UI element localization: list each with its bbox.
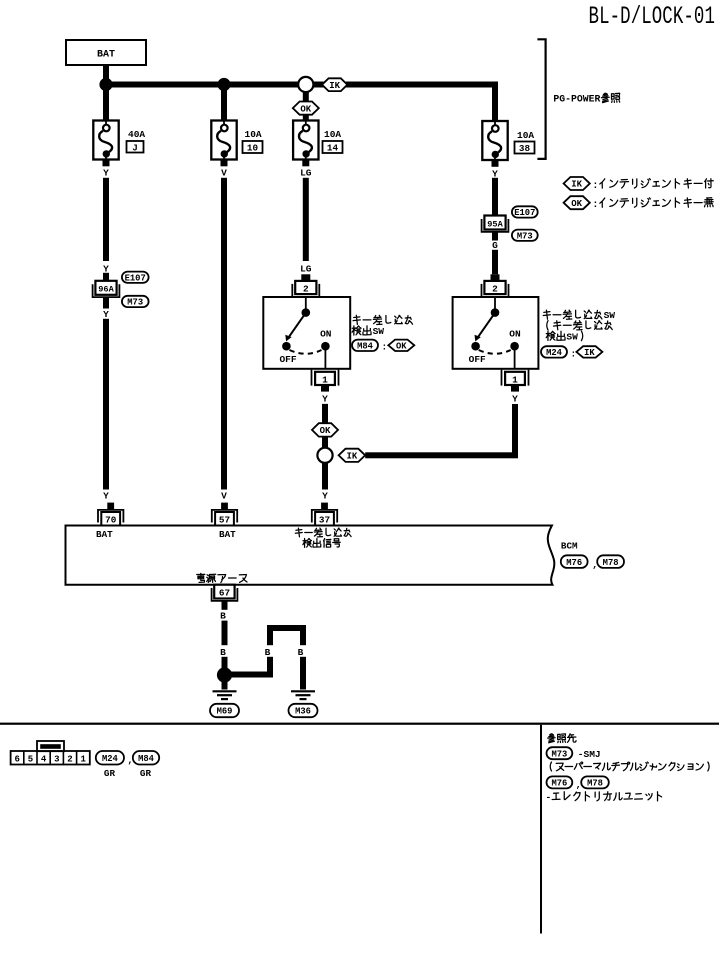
tag OK col3 [303,92,309,101]
wire col2 bus to fuse [221,85,227,121]
battery feed box BAT [66,40,146,65]
svg-text:OK: OK [396,342,407,352]
svg-text:Y: Y [492,168,498,179]
svg-text:5: 5 [28,755,33,765]
svg-text:PG-POWER: PG-POWER [553,93,600,104]
svg-text::: : [382,342,388,353]
tag M76 M78 [561,555,588,568]
tag M84 OK [352,340,378,351]
legend tag IK [564,177,590,190]
svg-text:Y: Y [322,394,328,405]
tag E107 col1 [122,272,149,283]
terminal 2 key switch right [491,274,500,281]
svg-text:M76: M76 [566,558,582,568]
svg-text:V: V [221,167,227,178]
svg-text:OFF: OFF [279,354,296,365]
svg-text:-: - [546,792,552,803]
fuse 10A 38 [482,121,507,160]
svg-text:1: 1 [322,375,328,386]
svg-text:14: 14 [327,143,339,154]
wire col3b down to OK tag [322,404,328,424]
node open circle mid [317,448,332,463]
svg-text:96A: 96A [98,285,114,295]
svg-text:E107: E107 [514,208,535,218]
svg-text:2: 2 [303,284,309,295]
svg-text:40A: 40A [128,129,145,140]
wire ground loop [225,672,274,678]
svg-text:OFF: OFF [469,354,486,365]
svg-text:IK: IK [329,81,340,91]
node junction dot col2 [217,78,230,91]
terminal 70 BCM [107,503,114,510]
wire col4 down to 95A [492,178,498,216]
reference legend [548,734,555,743]
svg-text:10A: 10A [324,129,341,140]
svg-text:95A: 95A [487,219,503,229]
tag IK mid [339,449,366,462]
terminal 2 key switch left [301,274,310,281]
svg-text::: : [592,200,598,211]
svg-text:M84: M84 [138,754,155,764]
tag E107 col4 [512,206,538,217]
svg-text:IK: IK [571,180,582,190]
tag OK mid [312,423,338,436]
svg-text:IK: IK [346,452,357,462]
svg-text:B: B [265,647,271,658]
wire power bus [103,82,299,88]
fuse 10A 14 [293,121,318,160]
svg-text:67: 67 [219,588,230,599]
svg-text:BL-D/LOCK-01: BL-D/LOCK-01 [589,3,715,31]
legend tag OK [564,196,590,209]
svg-text:57: 57 [219,515,230,526]
svg-text:38: 38 [519,143,531,154]
svg-text:ON: ON [509,328,521,339]
wire col1 down [103,178,109,261]
label key switch right [543,310,550,319]
svg-text:G: G [492,240,498,251]
wire col3 fuse to label LG [302,160,309,167]
wire col3 down [303,178,309,261]
svg-text:37: 37 [319,515,330,526]
svg-text:4: 4 [41,755,47,765]
connector 96A [95,281,116,295]
svg-text:M78: M78 [603,558,619,568]
wire col1 long down [103,319,109,490]
wire col1 fuse to label Y [103,160,110,167]
svg-text:B: B [220,647,226,658]
svg-text:J: J [132,143,138,154]
svg-text:IK: IK [584,348,595,358]
svg-text:Y: Y [103,263,109,274]
wire col4 bus down [492,85,498,122]
switch left internals [305,297,307,309]
svg-text:BAT: BAT [96,529,113,540]
wire col1 bus to fuse [103,85,109,121]
svg-text:M24: M24 [546,348,563,358]
svg-text:Y: Y [322,490,328,501]
wire col2 fuse to label V [221,160,228,167]
switch right internals [494,297,496,309]
svg-text:B: B [298,647,304,658]
svg-text:OK: OK [320,426,331,436]
svg-text:6: 6 [14,755,19,765]
svg-text::: : [571,348,577,359]
tag M84 GR [133,751,159,765]
wire ground col B 1 [222,601,228,610]
label key switch left [353,315,360,324]
tag M24 GR [96,751,124,765]
tag M73 col1 [122,296,149,307]
svg-text:3: 3 [54,755,59,765]
svg-text::: : [592,181,598,192]
fuse 10A 10 [211,121,236,160]
label power ground [197,573,205,582]
wire col2 long down [221,178,227,490]
connector pinout drawing [11,751,90,765]
node junction dot ground [217,667,232,682]
svg-text:B: B [220,611,226,622]
svg-text:GR: GR [140,768,152,779]
terminal 1 key switch right [501,370,503,386]
svg-text:W: W [609,310,615,321]
terminal 67 BCM bottom [214,585,234,599]
terminal 57 BCM [221,503,228,510]
wire mid circle down to BCM [322,463,328,490]
separator line [0,723,719,725]
ground symbol M69 [213,690,237,692]
connector 95A [484,216,505,230]
svg-text:LG: LG [300,167,312,178]
svg-text:10: 10 [247,143,259,154]
svg-text:LG: LG [300,263,312,274]
svg-text:1: 1 [512,375,518,386]
divider line [540,725,542,934]
svg-text:10A: 10A [245,129,262,140]
svg-text:10A: 10A [517,130,534,141]
svg-text:2: 2 [67,755,72,765]
svg-text:70: 70 [105,515,117,526]
svg-text:M84: M84 [357,342,374,352]
node open circle col3 [298,77,313,92]
svg-text:M69: M69 [217,707,233,717]
svg-text:V: V [221,490,227,501]
fuse 40A J [93,121,118,160]
svg-text:Y: Y [103,167,109,178]
tag M73 col4 [512,230,538,241]
tag M24 IK [541,346,567,357]
svg-text:OK: OK [571,199,582,209]
wire BAT to bus [103,65,109,85]
svg-text:M78: M78 [587,779,603,789]
BCM box [66,526,555,585]
svg-text:2: 2 [492,284,498,295]
bracket PG-POWER reference [537,39,545,159]
svg-text:M73: M73 [517,231,533,241]
terminal 1 key switch left [311,370,313,386]
svg-text:W: W [572,331,578,342]
svg-text:BAT: BAT [219,529,236,540]
svg-text:E107: E107 [125,273,146,283]
key cylinder switch left box [263,297,350,369]
svg-text:OK: OK [300,104,311,114]
svg-text:W: W [378,326,384,337]
wire col4 fuse to label Y [492,160,499,167]
wire col4b to mid circle [512,404,518,455]
ground symbol M36 [291,690,315,692]
svg-text:BCM: BCM [561,540,578,551]
svg-text:-SMJ: -SMJ [578,749,601,760]
svg-text:M36: M36 [295,707,311,717]
svg-text:1: 1 [80,755,86,765]
svg-text:M76: M76 [551,779,567,789]
svg-text:Y: Y [103,490,109,501]
svg-text:M73: M73 [551,749,567,759]
svg-text:ON: ON [320,328,332,339]
svg-text:M73: M73 [127,298,143,308]
tag IK on bus [322,78,347,91]
node junction dot col1 [99,78,112,91]
svg-text:M24: M24 [102,754,119,764]
svg-text:BAT: BAT [97,50,115,61]
svg-text:GR: GR [104,768,116,779]
svg-text:Y: Y [512,394,518,405]
key cylinder switch right box [453,297,539,369]
terminal 37 BCM [321,503,328,510]
svg-text:Y: Y [103,309,109,320]
